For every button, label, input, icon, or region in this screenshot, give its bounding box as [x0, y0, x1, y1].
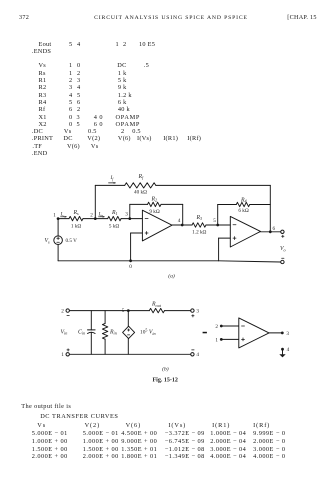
- label Vs: [45, 238, 51, 244]
- netlist listing: [39, 42, 52, 48]
- value 1.2 kOhm: [192, 229, 206, 235]
- wire: node4 to node5 with R3: [182, 224, 218, 226]
- op-amp X1: [142, 210, 172, 241]
- wire: op-amp X2 output to node 6 and terminal: [261, 231, 281, 233]
- svg-text:1: 1: [215, 337, 218, 343]
- dependent source diamond: [123, 311, 135, 355]
- resistor R4: [236, 202, 249, 206]
- svg-text:4: 4: [178, 218, 181, 224]
- label Vo: [280, 246, 286, 252]
- svg-text:5: 5: [122, 308, 125, 314]
- value 1 kOhm: [71, 223, 81, 229]
- svg-text:(a): (a): [168, 273, 175, 280]
- svg-text:6 kΩ: 6 kΩ: [238, 208, 248, 214]
- svg-text:0.5 V: 0.5 V: [66, 238, 78, 244]
- label Cin: [78, 329, 85, 335]
- wire: node1 to node2 with Rs: [58, 218, 95, 220]
- wire: op-amp X2 noninverting input to ground rail: [219, 238, 231, 261]
- op-amp (b) input 1: [215, 337, 238, 343]
- value 6 kOhm: [238, 208, 248, 214]
- ground node 0: [129, 259, 132, 270]
- node 5: [213, 218, 219, 226]
- resistor R1: [108, 216, 121, 220]
- svg-text:Vin: Vin: [61, 329, 68, 335]
- label 10^5 Vin: [140, 328, 156, 336]
- capacitor Cin: [88, 311, 96, 355]
- equals sign: [203, 332, 207, 334]
- label Vin: [61, 329, 68, 335]
- svg-text:6: 6: [273, 226, 276, 232]
- caption (a): [168, 273, 175, 280]
- svg-text:2: 2: [61, 308, 64, 314]
- svg-text:1.2 kΩ: 1.2 kΩ: [192, 229, 206, 235]
- svg-text:Vo: Vo: [280, 246, 286, 252]
- resistor R2: [148, 202, 162, 206]
- feedback loop R2: node3 up, across, down to node4: [130, 204, 183, 225]
- value 40 kOhm: [134, 189, 147, 195]
- output terminal +: [281, 230, 284, 237]
- wire: node2 up to top rail: [94, 185, 96, 218]
- current Iin arrow: [98, 212, 105, 218]
- wire: bottom rail (b): [69, 353, 190, 355]
- label Rf: [138, 174, 145, 180]
- svg-text:R1: R1: [111, 210, 118, 216]
- svg-text:R3: R3: [196, 215, 203, 221]
- svg-text:1: 1: [53, 212, 56, 218]
- wire: node5 to op-amp X2 inverting input: [218, 224, 231, 226]
- wire: top rail (b): [69, 310, 128, 312]
- current Is arrow: [60, 212, 67, 218]
- terminal 3 (b): [191, 308, 200, 317]
- svg-text:4: 4: [196, 352, 199, 358]
- wire: node2 to node3 with R1: [95, 218, 130, 220]
- label R1: [111, 210, 118, 216]
- output terminal -: [281, 258, 284, 263]
- label R4: [240, 197, 247, 203]
- svg-text:Vs: Vs: [45, 238, 51, 244]
- feedback loop R4: node5 up, across to right vertical: [218, 205, 271, 226]
- terminal 4 (b): [191, 350, 200, 358]
- svg-text:5: 5: [213, 218, 216, 224]
- svg-text:Cin: Cin: [78, 329, 85, 335]
- svg-text:2: 2: [90, 212, 93, 218]
- resistor Rf: [125, 183, 156, 188]
- svg-text:5 kΩ: 5 kΩ: [109, 223, 119, 229]
- svg-text:3: 3: [125, 211, 128, 217]
- node 6: [269, 226, 276, 233]
- label Rs: [73, 210, 80, 216]
- wire: top rail with Rf: [95, 184, 270, 186]
- op-amp X2: [230, 216, 260, 247]
- resistor R3: [192, 223, 206, 227]
- svg-text:3: 3: [196, 308, 199, 314]
- terminal 2 (b): [61, 308, 69, 315]
- wire: node3 to op-amp X1 inverting input: [130, 218, 143, 220]
- wire: top rail down to node 6: [269, 185, 271, 231]
- node 1: [53, 212, 59, 220]
- svg-text:105 Vin: 105 Vin: [140, 328, 156, 336]
- caption (b): [162, 366, 169, 373]
- value 9 kOhm: [149, 209, 159, 215]
- node 4: [178, 218, 184, 226]
- resistor Rs: [69, 216, 83, 220]
- ground reference 4 (b): [279, 347, 289, 358]
- svg-text:Rout: Rout: [151, 302, 162, 308]
- wire: node5 to Rout: [128, 310, 190, 312]
- page header: [19, 15, 29, 21]
- caption Fig. 15-12: [153, 378, 178, 384]
- resistor Rin: [102, 311, 107, 355]
- op-amp (b) output 3: [269, 331, 289, 337]
- svg-text:1: 1: [61, 352, 64, 358]
- label R3: [196, 215, 203, 221]
- output file text: [21, 404, 71, 410]
- label Rin: [109, 329, 117, 335]
- svg-text:3: 3: [286, 331, 289, 337]
- svg-text:R4: R4: [240, 197, 247, 203]
- ground rail (bottom wire): [58, 261, 281, 262]
- svg-text:2: 2: [215, 324, 218, 330]
- node 3: [125, 211, 131, 220]
- svg-text:(b): (b): [162, 366, 169, 373]
- svg-text:Fig. 15-12: Fig. 15-12: [153, 378, 178, 384]
- op-amp (b) input 2: [215, 324, 238, 330]
- svg-text:Rin: Rin: [109, 329, 117, 335]
- svg-text:9 kΩ: 9 kΩ: [149, 209, 159, 215]
- voltage source Vs: [54, 219, 63, 261]
- node 5 (b): [122, 308, 130, 314]
- svg-text:Rf: Rf: [138, 174, 145, 180]
- value 5 kOhm: [109, 223, 119, 229]
- op-amp (b) triangle: [239, 318, 269, 348]
- label Rout: [151, 302, 162, 308]
- resistor Rout: [149, 308, 164, 312]
- svg-text:R2: R2: [151, 196, 158, 202]
- svg-text:0: 0: [129, 264, 132, 270]
- terminal 1 (b): [61, 349, 69, 359]
- label R2: [151, 196, 158, 202]
- wire: op-amp X1 noninverting input to ground rail: [131, 233, 143, 261]
- svg-text:Rs: Rs: [73, 210, 80, 216]
- wire: op-amp X1 output to node 4: [172, 224, 182, 226]
- current If arrow: [109, 175, 116, 184]
- node 2: [90, 212, 96, 220]
- svg-text:40 kΩ: 40 kΩ: [134, 189, 147, 195]
- svg-text:1 kΩ: 1 kΩ: [71, 223, 81, 229]
- svg-text:If: If: [110, 175, 115, 181]
- value 0.5 V: [66, 238, 78, 244]
- svg-text:4: 4: [287, 347, 290, 353]
